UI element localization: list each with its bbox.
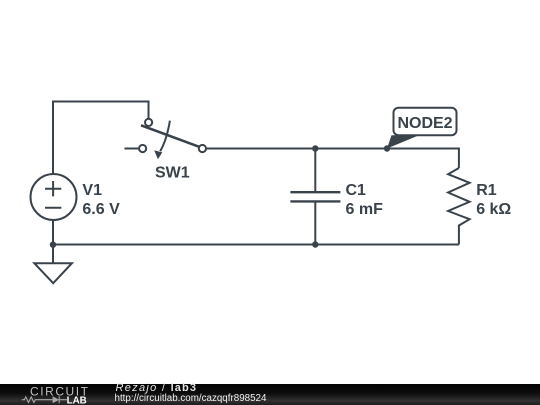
svg-text:NODE2: NODE2: [397, 115, 452, 132]
svg-text:C1: C1: [346, 182, 367, 199]
svg-text:6.6 V: 6.6 V: [82, 201, 120, 218]
svg-text:R1: R1: [476, 182, 497, 199]
svg-text:SW1: SW1: [155, 164, 190, 181]
svg-text:6 mF: 6 mF: [346, 201, 384, 218]
svg-text:V1: V1: [82, 182, 102, 199]
svg-text:6 kΩ: 6 kΩ: [476, 201, 511, 218]
svg-text:LAB: LAB: [67, 395, 87, 405]
